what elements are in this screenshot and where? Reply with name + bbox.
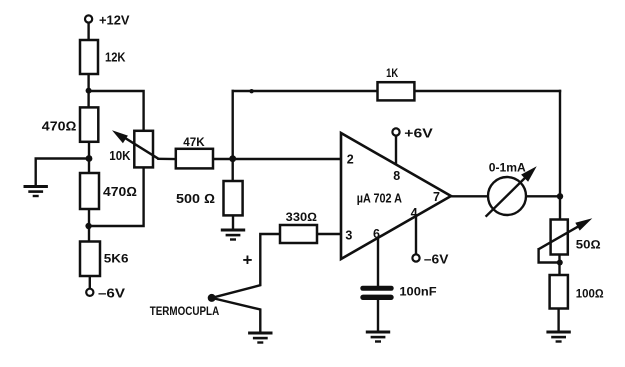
- wire node C to 10K pot bottom: [89, 167, 144, 226]
- junction 50 ohm wiper tie: [557, 260, 563, 266]
- svg-text:2: 2: [347, 152, 354, 166]
- wire op-amp output to meter: [451, 195, 488, 197]
- svg-text:–6V: –6V: [424, 252, 449, 267]
- svg-text:4: 4: [411, 206, 418, 220]
- svg-text:5K6: 5K6: [104, 252, 129, 266]
- wire 470 R2 bottom to 470 R3 top: [88, 142, 90, 173]
- wire 500 ohm bottom to ground: [232, 215, 234, 229]
- wire 12K bottom through node to 470 ohm R2: [87, 74, 89, 107]
- ground (left, node B): [24, 187, 48, 197]
- svg-text:50Ω: 50Ω: [576, 237, 601, 251]
- svg-text:TERMOCUPLA: TERMOCUPLA: [150, 306, 220, 318]
- wire pin 4 to -6V terminal: [415, 216, 417, 253]
- svg-text:100Ω: 100Ω: [576, 286, 604, 300]
- wire 470 R3 bottom to 5K6 top: [88, 209, 90, 242]
- resistor 47K: [176, 149, 213, 169]
- junction node D (47K / feedback / pin2): [229, 155, 236, 162]
- meter M1 arrow: [486, 166, 537, 217]
- wire node A to 10K pot top: [89, 91, 144, 131]
- terminal -6V (left): [86, 289, 93, 296]
- resistor 500 ohm: [224, 181, 243, 215]
- terminal -6V (right): [412, 254, 419, 261]
- potentiometer 50 ohm wiper arrow: [539, 218, 593, 249]
- ground (thermocouple): [248, 333, 272, 343]
- wire 50 ohm pot bottom to 100 ohm: [558, 255, 560, 276]
- resistor 330 ohm: [280, 225, 317, 243]
- svg-text:+: +: [243, 251, 253, 270]
- wire top feedback line: [233, 90, 560, 92]
- svg-text:330Ω: 330Ω: [286, 210, 317, 224]
- op-amp U1 uA702A triangle: [341, 133, 451, 259]
- junction small dot on top feedback wire: [249, 89, 253, 93]
- junction node B (470/470/ground): [86, 155, 93, 162]
- wire right vertical feedback to output node: [559, 91, 561, 196]
- ground (below capacitor): [366, 332, 390, 342]
- wire 330 ohm left down to thermocouple + lead: [212, 234, 280, 298]
- svg-text:µA 702 A: µA 702 A: [357, 192, 402, 206]
- resistor 470 ohm (lower): [80, 173, 99, 209]
- wire +12V terminal to 12K: [87, 24, 89, 40]
- svg-text:100nF: 100nF: [399, 285, 436, 299]
- svg-text:470Ω: 470Ω: [103, 184, 137, 199]
- wire thermocouple lower lead to ground: [212, 298, 261, 332]
- junction output node E: [557, 193, 563, 199]
- svg-text:10K: 10K: [109, 149, 130, 163]
- thermocouple junction dot: [208, 294, 216, 302]
- wire 50 ohm wiper tail to bottom lead: [539, 249, 560, 262]
- resistor 1K: [378, 82, 415, 100]
- wire 10K wiper bend to 47K left lead: [159, 158, 176, 161]
- wire 47K right to op-amp pin 2: [213, 158, 341, 160]
- ground (below 500 ohm): [221, 230, 245, 240]
- svg-text:0-1mA: 0-1mA: [489, 161, 526, 175]
- potentiometer 10K body: [134, 131, 153, 168]
- potentiometer 10K wiper arrow: [112, 130, 159, 159]
- wire capacitor bottom to ground: [377, 300, 379, 331]
- capacitor C1 100nF: [360, 286, 393, 300]
- terminal +6V: [392, 128, 399, 135]
- wire node B to ground stem: [36, 159, 89, 187]
- svg-text:500 Ω: 500 Ω: [176, 191, 215, 206]
- svg-text:–6V: –6V: [98, 286, 125, 301]
- junction node C (470/5K6/10K bottom): [85, 223, 91, 229]
- wire pin 6 down to capacitor: [377, 237, 379, 285]
- resistor 470 ohm (upper): [80, 107, 98, 141]
- wire vertical feedback branch down to 500 ohm: [231, 91, 233, 181]
- svg-text:12K: 12K: [105, 51, 126, 65]
- svg-text:8: 8: [393, 169, 400, 183]
- junction node A (12K / 470 / 10K top): [86, 88, 92, 94]
- svg-text:47K: 47K: [183, 135, 205, 149]
- wire 330 ohm right to op-amp pin 3: [317, 233, 341, 235]
- wire meter right to output node: [526, 195, 560, 197]
- wire 100 ohm bottom to ground: [557, 309, 559, 332]
- resistor 5K6: [80, 242, 100, 277]
- wire output node down to 50 ohm pot: [559, 196, 561, 219]
- ground (below 100 ohm): [546, 332, 570, 342]
- terminal +12V: [85, 15, 92, 22]
- wire +6V terminal to pin 8: [395, 137, 397, 165]
- resistor 12K: [80, 40, 98, 74]
- svg-text:1K: 1K: [386, 66, 398, 80]
- svg-text:+12V: +12V: [99, 13, 130, 28]
- svg-text:+6V: +6V: [404, 126, 433, 141]
- svg-text:6: 6: [373, 227, 380, 241]
- svg-text:7: 7: [433, 190, 440, 204]
- meter M1 0-1mA body: [488, 177, 526, 215]
- svg-text:470Ω: 470Ω: [42, 118, 77, 133]
- potentiometer 50 ohm body: [551, 220, 568, 255]
- wire 5K6 bottom to -6V terminal: [89, 276, 91, 288]
- svg-text:3: 3: [345, 228, 352, 242]
- resistor 100 ohm: [550, 275, 568, 309]
